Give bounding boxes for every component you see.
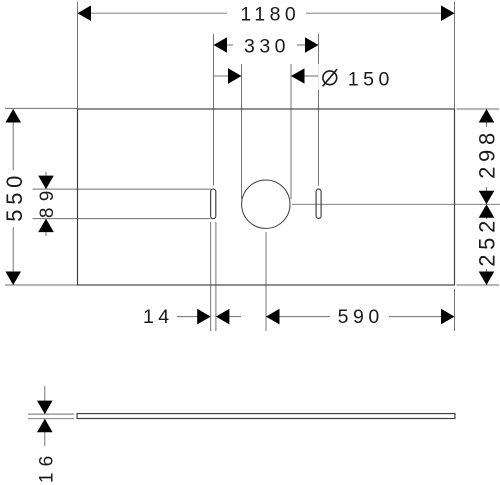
arrow 252 up bowtie bottom — [479, 204, 495, 218]
wire dimension tail 16 below — [44, 419, 46, 446]
wire extension line 298 top right — [457, 108, 500, 110]
wire dimension tail 14 right — [229, 316, 241, 318]
wire extension line 330 right — [318, 34, 320, 186]
svg-text:14: 14 — [143, 306, 174, 328]
white gap behind 330 — [233, 37, 297, 54]
arrow 298 up — [479, 109, 495, 123]
arrow 16 down — [37, 401, 53, 415]
wire centerline circle to right — [292, 203, 500, 205]
basin hole circle D150 — [242, 180, 290, 228]
white gap behind 550 — [5, 170, 23, 227]
wire dimension tail 14 left — [177, 316, 198, 318]
wire extension line 89 bottom — [33, 218, 211, 220]
svg-text:16: 16 — [36, 450, 57, 484]
svg-text:590: 590 — [338, 306, 384, 328]
side view board 16 thick — [77, 414, 455, 419]
wire extension line circle center — [265, 232, 267, 331]
wire dimension tail D150 right — [291, 75, 319, 77]
arrow 14 pointing right — [197, 309, 211, 325]
slot left 14x89 — [211, 189, 216, 219]
arrow 16 up — [37, 419, 53, 433]
wire dimension tail D150 left — [214, 75, 230, 77]
white gap behind 298 — [478, 127, 496, 187]
svg-text:1180: 1180 — [240, 3, 300, 25]
wire extension line slot right edge — [215, 222, 217, 331]
wire extension line 550 bottom — [5, 284, 77, 286]
wire dimension tail 89 below — [45, 219, 47, 236]
label D150 — [323, 71, 337, 85]
arrow 252 down — [479, 272, 495, 286]
wire extension line 16 top — [28, 413, 74, 415]
arrow 550 up — [5, 109, 21, 123]
svg-text:89: 89 — [37, 185, 58, 219]
wire extension line rect right bottom — [454, 289, 456, 331]
arrow 1180 right — [441, 5, 455, 21]
wire dimension tail 89 above — [45, 172, 47, 189]
wire dimension line 590 — [266, 316, 455, 318]
white gap behind 590 — [330, 308, 389, 325]
arrow D150 left pointing right — [228, 68, 242, 84]
wire extension line 89 top — [33, 188, 211, 190]
wire extension line circle left — [241, 64, 243, 199]
wire dimension tail 16 above — [44, 386, 46, 414]
slot right — [316, 189, 321, 218]
svg-text:550: 550 — [2, 171, 27, 222]
arrow 330 left — [214, 37, 228, 53]
wire extension line 1180 left — [77, 2, 79, 110]
arrow D150 right pointing left — [291, 68, 305, 84]
svg-text:150: 150 — [348, 68, 394, 90]
wire dimension line 330 — [214, 44, 319, 46]
wire dimension line 298-252 — [486, 109, 488, 285]
wire extension line 1180 right — [454, 2, 456, 110]
white gap behind 1180 — [227, 4, 306, 22]
wire extension line circle right — [290, 64, 292, 199]
arrow 1180 left — [78, 5, 92, 21]
wire extension line 330 left — [213, 34, 215, 186]
wire extension line 550 top — [5, 107, 77, 109]
white gap behind 252 — [478, 219, 496, 269]
arrow 590 right — [441, 309, 455, 325]
arrow 14 pointing left — [216, 309, 230, 325]
arrow 298 down bowtie top — [479, 191, 495, 205]
countertop outline top view — [78, 109, 455, 285]
white gap behind D150 — [318, 64, 394, 90]
arrow 89 down to top line — [38, 176, 54, 190]
arrow 89 up to bottom line — [38, 219, 54, 233]
svg-text:252: 252 — [474, 216, 499, 267]
svg-text:330: 330 — [244, 35, 290, 57]
arrow 330 right — [305, 37, 319, 53]
arrow 590 left — [266, 309, 280, 325]
wire extension line slot left edge — [210, 222, 212, 331]
wire dimension line 550 — [12, 109, 14, 285]
arrow 550 down — [5, 272, 21, 286]
wire dimension line 1180 — [78, 12, 455, 14]
wire extension line 252 bottom right — [457, 284, 500, 286]
wire extension line 16 bottom — [28, 418, 74, 420]
svg-text:298: 298 — [474, 128, 499, 179]
